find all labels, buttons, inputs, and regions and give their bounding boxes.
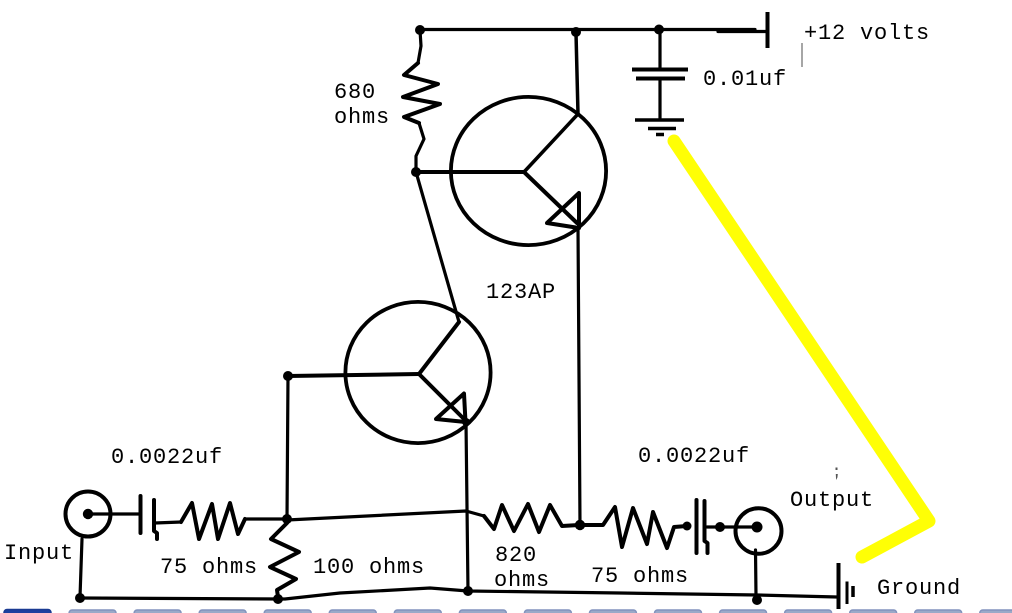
svg-text:+12 volts: +12 volts bbox=[804, 21, 930, 46]
capacitor C2 0.01uf plates bbox=[632, 70, 688, 79]
wire Q2 collector bbox=[419, 322, 459, 374]
taskbar buttons bbox=[4, 610, 1012, 613]
node top-left junction bbox=[415, 25, 425, 35]
arrowhead Q2 emitter bbox=[436, 394, 466, 423]
node J2 ground bbox=[752, 595, 762, 605]
svg-text:123AP: 123AP bbox=[486, 280, 556, 305]
svg-text:75 ohms: 75 ohms bbox=[160, 555, 258, 580]
node Q2 emitter ground bbox=[463, 586, 473, 596]
wire input down bbox=[80, 539, 82, 597]
arrowhead Q1 emitter bbox=[547, 193, 579, 228]
wire J1 to C1 bbox=[93, 512, 139, 515]
svg-text:0.0022uf: 0.0022uf bbox=[638, 444, 750, 469]
svg-text:820: 820 bbox=[495, 543, 537, 568]
transistor Q1 circle bbox=[451, 97, 606, 245]
node input ground bbox=[75, 593, 85, 603]
connector J1 input circle bbox=[66, 492, 111, 537]
wire C2 to ground bbox=[658, 80, 661, 118]
resistor R3 100 ohms bbox=[270, 523, 299, 597]
resistor R2 75 ohms bbox=[181, 503, 245, 539]
wire node B to R4 bbox=[287, 511, 484, 520]
svg-text:Output: Output bbox=[790, 488, 874, 513]
node J1 center bbox=[83, 509, 93, 519]
node bypass cap junction bbox=[654, 25, 664, 35]
svg-text:680: 680 bbox=[334, 80, 376, 105]
wire Q2 emitter bbox=[419, 374, 465, 420]
resistor R1 680 ohms bbox=[403, 63, 440, 123]
svg-text:ohms: ohms bbox=[334, 105, 390, 130]
wire Q2 base down bbox=[287, 376, 288, 519]
node Q2 base bbox=[283, 371, 293, 381]
wire Q1 base bbox=[416, 170, 524, 174]
connector J2 output circle bbox=[736, 508, 782, 554]
wire top supply rail bbox=[420, 30, 766, 32]
wire Q1 base to Q2 collector bbox=[416, 172, 459, 322]
transistor Q2 circle bbox=[345, 302, 490, 443]
svg-text:Input: Input bbox=[4, 541, 74, 566]
svg-text:100 ohms: 100 ohms bbox=[313, 555, 425, 580]
capacitor C1 0.0022uf plates bbox=[141, 496, 158, 539]
node R3 ground bbox=[273, 594, 283, 604]
capacitor C2 wire from rail bbox=[658, 31, 661, 68]
node C3 to J2 bbox=[715, 522, 725, 532]
+12V terminal bar bbox=[766, 12, 770, 48]
node A (Q1 base) bbox=[411, 167, 421, 177]
wire C3 to J2 bbox=[707, 525, 757, 528]
node J2 center bbox=[752, 522, 763, 533]
ground symbol C2 bbox=[635, 120, 684, 135]
wire Q2 base bbox=[288, 374, 419, 376]
node B junction bbox=[282, 514, 292, 524]
yellow marker annotation bbox=[674, 141, 929, 557]
wire J2 down bbox=[754, 550, 758, 596]
wire Q2 emitter down bbox=[466, 422, 468, 591]
wire C1 to R2 bbox=[155, 522, 181, 523]
wire R1 to node A bbox=[416, 123, 424, 168]
wire Q1 emitter down bbox=[578, 228, 580, 525]
ground symbol main bbox=[837, 563, 841, 609]
node Q2 emitter blob bbox=[462, 418, 470, 426]
stray semicolon mark bbox=[836, 468, 838, 481]
capacitor C3 0.0022uf plates bbox=[697, 500, 708, 553]
wire rail to R1 bbox=[418, 30, 421, 63]
svg-text:75 ohms: 75 ohms bbox=[591, 564, 689, 589]
wire Q1 emitter bbox=[524, 172, 577, 223]
wire bottom ground rail bbox=[80, 588, 837, 599]
resistor R5 75 ohms bbox=[580, 507, 687, 548]
svg-text:0.01uf: 0.01uf bbox=[703, 67, 787, 92]
node R5 to C3 bbox=[683, 522, 692, 531]
wire Q1 collector bbox=[524, 33, 578, 172]
resistor R4 820 ohms bbox=[484, 504, 579, 532]
node C (Q1 emitter to R4/R5) bbox=[575, 520, 585, 530]
wire R2 to node B bbox=[245, 517, 287, 520]
text caret artifact bbox=[801, 43, 803, 67]
svg-text:Ground: Ground bbox=[877, 576, 961, 601]
svg-text:0.0022uf: 0.0022uf bbox=[111, 445, 223, 470]
svg-text:ohms: ohms bbox=[494, 568, 550, 593]
node collector junction bbox=[571, 27, 581, 37]
